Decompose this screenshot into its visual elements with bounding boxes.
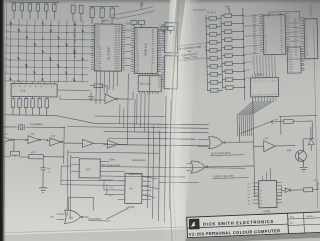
svg-text:U3: U3 (86, 167, 90, 171)
resistor R50 (304, 188, 319, 192)
net label SCXX 6800-6FFF (210, 152, 244, 156)
svg-text:9: 9 (46, 86, 47, 88)
svg-text:6: 6 (266, 81, 267, 83)
U14 U15 pins (161, 25, 165, 87)
resistor R22 (28, 2, 32, 19)
U8 pin labels (288, 50, 293, 74)
svg-text:12: 12 (159, 50, 161, 52)
svg-text:13: 13 (260, 200, 262, 202)
svg-text:U12: U12 (20, 89, 26, 93)
resistor R47 (274, 119, 293, 123)
svg-text:KBD,6800U: KBD,6800U (89, 218, 102, 221)
wire (9, 2, 119, 7)
svg-text:D3 21: D3 21 (114, 70, 119, 72)
svg-text:U32: U32 (264, 137, 269, 140)
svg-text:13: 13 (266, 94, 268, 96)
svg-text:18: 18 (252, 94, 254, 96)
svg-text:15: 15 (261, 94, 263, 96)
wire (1, 127, 64, 164)
svg-text:U2: U2 (70, 216, 74, 220)
resistor R29 (100, 6, 104, 24)
resistor RA9 (207, 81, 223, 85)
binding dark edge (0, 0, 6, 241)
or-gate U30A (209, 136, 226, 148)
svg-text:LS245: LS245 (255, 72, 263, 76)
wire (67, 123, 208, 159)
nor-gate U2 (64, 210, 83, 224)
resistor RB4 (221, 38, 244, 42)
wire (61, 150, 72, 220)
title block (185, 212, 320, 241)
resistor R30 (110, 7, 114, 25)
+5V (103, 18, 110, 22)
U9 pin numbers (135, 28, 154, 74)
svg-text:12: 12 (29, 86, 31, 88)
net label VIDEO 7000-77FF (212, 175, 248, 179)
page bottom edge (0, 229, 185, 235)
U3 pins (71, 161, 245, 183)
wire (60, 85, 133, 100)
wire (104, 181, 107, 195)
wire (262, 167, 282, 195)
svg-text:KBD (6800-6FFF): KBD (6800-6FFF) (101, 164, 120, 167)
bus fan (237, 100, 275, 136)
resistor R23 (36, 2, 40, 19)
svg-text:17: 17 (265, 52, 267, 54)
wire (57, 197, 129, 220)
transistor Q1 (287, 139, 307, 167)
U7 pin labels (252, 13, 282, 54)
resistor RB1 (220, 14, 243, 18)
svg-text:P2: P2 (248, 187, 250, 189)
inverter U13B (50, 136, 63, 146)
svg-text:5: 5 (263, 81, 264, 83)
svg-text:15: 15 (13, 86, 15, 88)
resistor RB7 (221, 62, 244, 66)
resistor R31 (11, 96, 15, 115)
wire (289, 23, 300, 41)
wire (1, 136, 64, 158)
svg-text:P1: P1 (247, 184, 249, 186)
text box 8K WORKING RAM (177, 43, 207, 61)
svg-text:17: 17 (255, 94, 257, 96)
fold gutter shadow top (0, 0, 1, 1)
wire (148, 96, 172, 223)
page fold highlight band (156, 0, 200, 241)
svg-text:U13: U13 (51, 136, 56, 138)
inverter U13A (28, 133, 41, 143)
svg-text:12: 12 (269, 94, 271, 96)
resistor R27 (79, 5, 83, 22)
resistor R3 (10, 140, 19, 157)
wire (197, 124, 253, 147)
capacitor C4 (40, 159, 52, 188)
resistor RB3 (221, 30, 244, 34)
wire (186, 162, 254, 170)
resistor RA1 (205, 17, 221, 21)
resistor RA2 (206, 25, 222, 29)
resistor R28 (90, 6, 94, 24)
svg-text:16: 16 (306, 54, 308, 56)
resistor RB8 (222, 70, 245, 74)
resistor R34 (31, 97, 35, 116)
U10 pins (140, 73, 158, 94)
IC U3 (79, 159, 100, 178)
resistor R9 (161, 26, 167, 34)
svg-text:8: 8 (51, 86, 52, 88)
crystal X1 (19, 124, 25, 130)
U1 pin numbers (95, 25, 120, 72)
svg-text:+5V: +5V (125, 21, 130, 25)
resistor R36 (45, 97, 49, 116)
resistor RB6 (221, 54, 244, 58)
IC U12 (11, 83, 57, 97)
U8 pins (118, 176, 151, 199)
wire (95, 71, 167, 132)
or-gate U30B (191, 161, 208, 173)
resistor R21 (20, 2, 24, 19)
resistor R20 (12, 2, 16, 19)
svg-text:U13: U13 (30, 133, 35, 135)
resistor RB10 (222, 86, 245, 90)
svg-text:P3: P3 (248, 190, 250, 192)
resistor RA4 (206, 41, 222, 45)
svg-text:7: 7 (269, 81, 270, 83)
matrix junctions (10, 24, 84, 82)
svg-text:+5V: +5V (105, 18, 110, 22)
svg-text:P6: P6 (248, 201, 250, 203)
wire (253, 97, 259, 196)
svg-text:+5V: +5V (313, 180, 318, 182)
resistor RA3 (206, 33, 222, 37)
svg-text:U8: U8 (129, 186, 133, 190)
resistor R33 (24, 97, 28, 116)
wire (254, 145, 295, 148)
svg-text:9: 9 (275, 80, 276, 82)
svg-text:14: 14 (263, 94, 265, 96)
wire (4, 89, 95, 123)
svg-text:1: 1 (252, 81, 253, 83)
fold wash over ink (163, 0, 186, 241)
svg-text:ROM 16K: ROM 16K (144, 43, 148, 55)
buffer U32 (264, 137, 276, 152)
wire (111, 6, 155, 20)
wire (61, 176, 159, 198)
fold crease line (170, 0, 179, 241)
net label KBD 6800 (88, 218, 111, 221)
svg-text:14: 14 (19, 86, 21, 88)
wire bus (206, 8, 245, 101)
resistor RA7 (206, 65, 222, 69)
svg-text:R48: R48 (287, 149, 292, 152)
buffer U13D (107, 140, 118, 148)
svg-text:P7: P7 (248, 204, 250, 206)
keyboard matrix row wires (4, 25, 89, 82)
svg-text:10: 10 (260, 190, 262, 192)
svg-text:13: 13 (24, 86, 26, 88)
svg-text:14: 14 (260, 204, 262, 206)
+5V (313, 180, 319, 190)
wire (88, 26, 131, 66)
IC U9 ROM (131, 27, 162, 73)
svg-text:U1 Z-80A: U1 Z-80A (106, 47, 110, 60)
U12 pin numbers (13, 86, 52, 88)
svg-text:1.0MHZ TO SHEET 2: 1.0MHZ TO SHEET 2 (73, 24, 77, 58)
resistor RA8 (207, 73, 223, 77)
resistor R8 (138, 20, 144, 27)
resistor R25 (52, 3, 56, 20)
ground (39, 188, 48, 193)
junctions (242, 15, 245, 88)
wire (254, 54, 305, 74)
ground (300, 167, 308, 172)
diode D5 (303, 127, 315, 151)
wire (243, 16, 260, 78)
diode D6 (282, 188, 304, 193)
IC U15 LS257 (164, 56, 177, 89)
resistor R26 (71, 5, 75, 22)
resistor RB2 (221, 22, 244, 26)
svg-text:11: 11 (260, 193, 262, 195)
resistor R24 (44, 3, 48, 20)
+5V (125, 21, 130, 25)
svg-text:6: 6 (151, 72, 152, 74)
svg-text:TO SH 2: TO SH 2 (207, 11, 217, 14)
U57B pin labels (247, 183, 261, 206)
ground (88, 92, 94, 101)
svg-text:16: 16 (258, 94, 260, 96)
inverter U11A (0, 134, 12, 144)
IC U14 LS257 (165, 23, 178, 53)
wire (0, 72, 128, 145)
svg-text:3: 3 (257, 81, 258, 83)
svg-text:10: 10 (275, 94, 277, 96)
IC U8 LS138 (125, 173, 142, 209)
IC U10 RAM 6116 (138, 75, 161, 91)
resistor R12 (90, 84, 107, 88)
buffer U6D (105, 94, 118, 104)
svg-text:12: 12 (260, 197, 262, 199)
junction (1, 126, 65, 141)
U4 pin numbers (252, 80, 277, 96)
svg-text:P4: P4 (248, 194, 250, 196)
resistor RA10 (207, 89, 223, 93)
svg-text:SCXX 6800-6FFF: SCXX 6800-6FFF (211, 152, 231, 155)
svg-text:6116 6116: 6116 6116 (140, 82, 152, 85)
resistor R35 (38, 97, 42, 116)
svg-text:9: 9 (260, 187, 261, 189)
svg-text:11: 11 (35, 86, 37, 88)
frame border (4, 1, 7, 209)
resistor RA5 (206, 49, 222, 53)
svg-text:8: 8 (272, 81, 273, 83)
wire (193, 5, 311, 22)
svg-text:19: 19 (281, 52, 283, 54)
U12 pins (14, 81, 54, 84)
IC U8 (287, 47, 304, 73)
svg-text:11: 11 (272, 94, 274, 96)
IC U57B (252, 180, 282, 208)
keyboard matrix column wires (10, 19, 83, 82)
svg-text:U57B: U57B (263, 209, 270, 213)
svg-text:D6: D6 (295, 55, 297, 57)
wire (241, 116, 317, 141)
keyboard key diodes (9, 22, 84, 81)
resistor R7 (131, 20, 137, 27)
svg-text:ISSUE 1: ISSUE 1 (306, 216, 315, 218)
+5V (140, 2, 143, 10)
op-amp U1 Z80A CPU (91, 24, 126, 71)
IC U7 6847 (259, 14, 290, 55)
U16 pin labels (294, 18, 308, 57)
resistor RB5 (221, 46, 244, 50)
svg-text:2: 2 (254, 81, 255, 83)
svg-text:10: 10 (40, 86, 42, 88)
svg-text:ADW: ADW (109, 158, 115, 161)
svg-text:13: 13 (158, 86, 160, 88)
svg-text:3.579MHZ: 3.579MHZ (30, 122, 43, 126)
U4 pins (252, 74, 276, 101)
svg-text:Y1 12: Y1 12 (289, 71, 294, 73)
net +5V (225, 4, 231, 10)
svg-text:P5: P5 (248, 197, 250, 199)
IC U4 LS245 (250, 72, 279, 97)
svg-text:A18: A18 (135, 71, 138, 74)
svg-text:(8800-8FFF): (8800-8FFF) (132, 159, 146, 162)
matrix row labels (6, 23, 8, 74)
resistor R32 (18, 96, 22, 115)
resistor R10 (168, 26, 174, 34)
resistor R4 47K (29, 152, 44, 159)
IC U16 (300, 18, 318, 59)
svg-text:4: 4 (260, 81, 261, 83)
svg-text:8: 8 (259, 183, 260, 185)
resistor RA6 (206, 57, 222, 61)
svg-text:47K: 47K (31, 152, 36, 154)
frame border (314, 27, 318, 209)
resistor RB9 (222, 78, 245, 82)
buffer U13C (82, 139, 93, 147)
